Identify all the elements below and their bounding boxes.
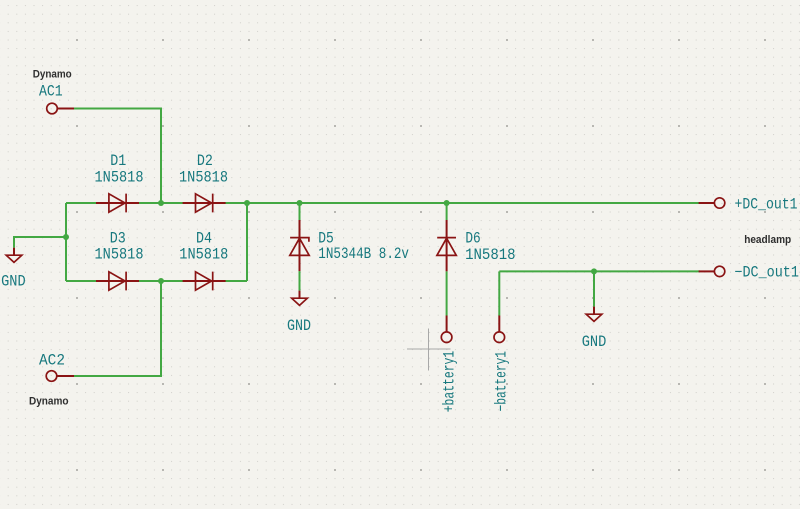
svg-text:1N5818: 1N5818 — [179, 168, 228, 186]
svg-text:AC2: AC2 — [39, 351, 65, 369]
diode D6 — [437, 238, 456, 256]
svg-text:−DC_out1: −DC_out1 — [734, 263, 799, 281]
ground symbol right — [586, 314, 602, 321]
svg-text:1N5818: 1N5818 — [95, 246, 144, 264]
pin leads D2 — [183, 202, 226, 204]
pin leads D5 — [299, 220, 301, 271]
wire -battery drop — [498, 271, 500, 315]
wire top row +DC bus — [66, 202, 700, 204]
wire D6 to +battery — [446, 271, 448, 315]
junction at D3-D4 — [158, 278, 164, 284]
junction at right GND — [591, 268, 597, 274]
svg-text:1N5344B 8.2v: 1N5344B 8.2v — [318, 245, 409, 263]
pin leads D4 — [183, 280, 226, 282]
svg-text:−battery1: −battery1 — [493, 351, 511, 412]
svg-text:GND: GND — [582, 333, 607, 351]
pin circle +battery1 — [441, 332, 452, 343]
pin lead -DC_out1 — [699, 270, 715, 272]
wire D6 top — [446, 203, 448, 220]
wire right bridge vertical — [246, 203, 248, 281]
junction at D5 — [297, 200, 303, 206]
svg-text:D2: D2 — [197, 152, 213, 170]
pin leads D6 — [446, 220, 448, 271]
pin lead +battery1 — [446, 316, 448, 332]
svg-text:1N5818: 1N5818 — [179, 246, 228, 264]
svg-text:GND: GND — [287, 317, 311, 335]
pin circle AC1 — [47, 103, 58, 114]
wire bottom row — [66, 280, 247, 282]
svg-text:+DC_out1: +DC_out1 — [735, 195, 798, 213]
junction at left GND — [63, 234, 69, 240]
wire D5 top — [299, 203, 301, 220]
svg-text:Dynamo: Dynamo — [33, 68, 72, 80]
svg-text:AC1: AC1 — [39, 83, 63, 101]
junction at D1-D2 — [158, 200, 164, 206]
pin circle -DC_out1 — [714, 266, 724, 276]
wire GND branch right — [593, 271, 595, 306]
pin stub GND right — [593, 307, 595, 315]
pin stub GND D5 — [299, 291, 301, 299]
svg-text:1N5818: 1N5818 — [95, 168, 144, 186]
svg-text:GND: GND — [1, 272, 26, 290]
wire AC2 to bridge — [74, 281, 161, 376]
wire left bridge vertical — [65, 203, 67, 281]
svg-text:headlamp: headlamp — [744, 234, 791, 246]
wire GND branch left — [14, 237, 66, 248]
cursor crosshair — [407, 329, 451, 371]
svg-text:D1: D1 — [110, 152, 126, 170]
pin lead AC2 — [57, 375, 74, 377]
zener diode D5 — [290, 238, 309, 256]
svg-text:Dynamo: Dynamo — [29, 395, 69, 407]
junction at D2 cathode — [244, 200, 250, 206]
diode D3 — [109, 272, 126, 291]
diode D4 — [196, 272, 213, 291]
ground symbol left — [6, 255, 22, 262]
pin lead -battery1 — [498, 316, 500, 332]
junction at D6 — [444, 200, 450, 206]
pin lead +DC_out1 — [699, 202, 715, 204]
pin leads D1 — [96, 202, 139, 204]
svg-text:D6: D6 — [465, 229, 480, 247]
pin circle +DC_out1 — [714, 198, 724, 208]
svg-text:+battery1: +battery1 — [441, 351, 459, 413]
wire -DC bus — [499, 270, 700, 272]
pin circle AC2 — [46, 371, 57, 382]
pin circle -battery1 — [494, 332, 505, 343]
wire D5 bottom to GND — [299, 271, 301, 291]
ground symbol D5 — [292, 298, 308, 305]
diode D1 — [109, 194, 126, 213]
svg-text:1N5818: 1N5818 — [465, 246, 515, 264]
pin leads D3 — [96, 280, 139, 282]
pin stub GND left — [13, 248, 15, 256]
pin lead AC1 — [57, 108, 74, 110]
wire AC1 to bridge — [74, 109, 161, 204]
diode D2 — [196, 194, 213, 213]
